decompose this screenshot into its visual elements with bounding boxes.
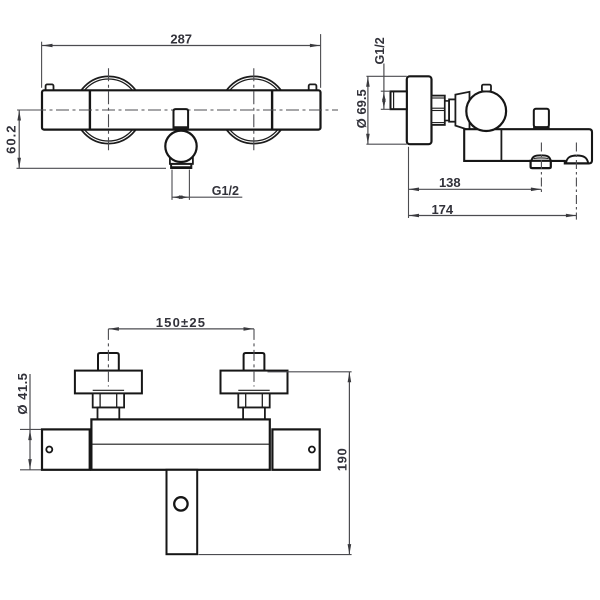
dim 60.2 extension top bbox=[17, 109, 34, 111]
centerline spout side bbox=[575, 143, 577, 220]
spout dome bbox=[566, 156, 588, 164]
dim 69.5 extension bottom bbox=[366, 143, 406, 145]
svg-text:190: 190 bbox=[335, 448, 350, 472]
dim 138-174 extension wall bbox=[408, 147, 410, 218]
outlet dome side bbox=[532, 155, 551, 161]
neck left bbox=[98, 408, 120, 420]
main horizontal centerline bbox=[33, 109, 338, 111]
body bar bottom view bbox=[91, 419, 269, 469]
diverter knob front bbox=[174, 109, 189, 127]
bar division line bbox=[500, 129, 502, 161]
svg-text:174: 174 bbox=[431, 202, 453, 217]
diverter knob base side bbox=[533, 127, 550, 130]
handle circle left inner bbox=[78, 79, 140, 141]
crosshair left circle bbox=[108, 68, 110, 150]
dim 190 extension bottom bbox=[199, 554, 352, 556]
dim 174 line bbox=[409, 215, 577, 217]
nipple thread line bbox=[393, 91, 395, 109]
dim 150+-25 line bbox=[108, 328, 254, 330]
escutcheon right bbox=[221, 371, 288, 394]
dim 287 extension left bbox=[41, 42, 43, 88]
dim G1/2 front line bbox=[172, 196, 242, 198]
dim G1/2 side extension top bbox=[381, 90, 391, 92]
mixer body front bbox=[42, 90, 321, 129]
outlet aerator ring bbox=[171, 164, 191, 168]
crosshair right circle bbox=[253, 68, 255, 150]
outlet cup side bbox=[531, 161, 551, 168]
hex shoulder line left bbox=[93, 389, 124, 391]
svg-text:G1/2: G1/2 bbox=[373, 37, 387, 64]
svg-text:Ø 41.5: Ø 41.5 bbox=[15, 373, 30, 415]
handle circle left outer bbox=[75, 76, 142, 143]
dim G1/2 front extension right bbox=[188, 170, 190, 200]
dim 138 line bbox=[409, 188, 542, 190]
outlet ball front bbox=[165, 131, 196, 162]
end cap right bbox=[272, 429, 319, 469]
wall flange side bbox=[407, 76, 432, 144]
svg-text:G1/2: G1/2 bbox=[212, 184, 239, 198]
connector ring bbox=[449, 99, 455, 121]
knob tab side bbox=[482, 85, 491, 92]
body division line left bbox=[89, 90, 91, 129]
diverter knob base band bbox=[173, 127, 189, 130]
dim 60.2 extension bottom bbox=[17, 167, 167, 169]
svg-text:60.2: 60.2 bbox=[4, 125, 19, 154]
dim 41.5 line bbox=[29, 374, 31, 470]
escutcheon left bbox=[75, 371, 142, 394]
dim G1/2 side extension bottom bbox=[381, 108, 391, 110]
inlet stem right bbox=[244, 353, 265, 371]
mounting tab right bbox=[309, 84, 317, 91]
mounting tab left bbox=[46, 84, 54, 91]
dim 190 line bbox=[348, 372, 350, 555]
hex nut side bbox=[432, 96, 445, 125]
body bar side bbox=[464, 129, 592, 163]
drop pipe bbox=[167, 470, 198, 554]
hex nut left bbox=[93, 393, 124, 407]
end cap left bbox=[42, 429, 90, 469]
pipe hole bbox=[174, 497, 187, 510]
outlet aerator bottom edge bbox=[171, 166, 191, 169]
dim 41.5 extension top bbox=[20, 428, 41, 430]
dim 190 extension top bbox=[268, 371, 352, 373]
dim G1/2 front extension left bbox=[171, 170, 173, 200]
handle circle right outer bbox=[220, 76, 287, 143]
centerline outlet side bbox=[540, 143, 542, 194]
connector neck bbox=[445, 101, 449, 121]
dim 287 line bbox=[42, 45, 320, 47]
dim 287 extension right bbox=[320, 34, 322, 88]
body division line right bbox=[271, 90, 273, 129]
centerline inlet right bbox=[253, 329, 255, 387]
outlet collar bbox=[170, 157, 193, 164]
end cap left hole bbox=[46, 447, 52, 453]
svg-text:287: 287 bbox=[170, 32, 192, 47]
thermostat knob side bbox=[466, 91, 506, 131]
svg-text:Ø 69.5: Ø 69.5 bbox=[354, 89, 369, 128]
dim G1/2 side line bbox=[383, 64, 385, 110]
bar inner line bbox=[91, 443, 269, 445]
handle circle right inner bbox=[223, 79, 285, 141]
inlet nipple bbox=[391, 91, 407, 109]
outlet dome inner line bbox=[534, 157, 549, 160]
svg-text:138: 138 bbox=[439, 175, 461, 190]
hex nut right bbox=[238, 393, 269, 407]
hex shoulder line right bbox=[238, 389, 269, 391]
inlet stem left bbox=[98, 353, 119, 371]
diverter knob side bbox=[534, 109, 549, 127]
end cap right hole bbox=[309, 447, 315, 453]
neck right bbox=[243, 408, 265, 420]
valve cone bbox=[455, 92, 469, 130]
dim 60.2 line bbox=[18, 110, 20, 168]
centerline inlet left bbox=[107, 329, 109, 387]
dim 69.5 line bbox=[367, 76, 369, 144]
dim 41.5 extension bottom bbox=[20, 469, 41, 471]
svg-text:150±25: 150±25 bbox=[156, 315, 207, 330]
dim 69.5 extension top bbox=[366, 75, 406, 77]
